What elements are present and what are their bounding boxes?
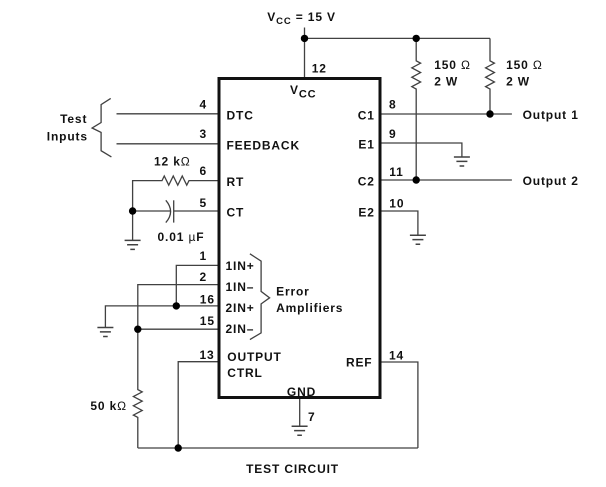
svg-text:1: 1 <box>200 249 208 263</box>
svg-text:13: 13 <box>200 348 215 362</box>
svg-text:7: 7 <box>308 410 316 424</box>
svg-text:1IN+: 1IN+ <box>226 259 255 273</box>
svg-text:150 Ω: 150 Ω <box>506 58 543 72</box>
svg-text:2 W: 2 W <box>434 74 458 88</box>
svg-text:6: 6 <box>200 164 208 178</box>
svg-text:3: 3 <box>200 127 208 141</box>
svg-text:OUTPUT: OUTPUT <box>227 350 281 364</box>
svg-text:10: 10 <box>389 196 404 210</box>
svg-text:16: 16 <box>200 293 215 307</box>
svg-text:50 kΩ: 50 kΩ <box>90 399 127 413</box>
svg-text:14: 14 <box>389 348 404 362</box>
svg-text:8: 8 <box>389 98 397 112</box>
svg-text:0.01 µF: 0.01 µF <box>158 230 205 244</box>
svg-text:Error: Error <box>276 284 310 298</box>
svg-text:C2: C2 <box>358 175 375 189</box>
svg-text:15: 15 <box>200 314 215 328</box>
svg-text:Output 1: Output 1 <box>523 108 579 122</box>
svg-text:DTC: DTC <box>227 108 254 122</box>
svg-text:C1: C1 <box>358 108 375 122</box>
svg-text:VCC = 15 V: VCC = 15 V <box>267 10 336 27</box>
svg-text:2IN–: 2IN– <box>226 322 255 336</box>
svg-text:Test: Test <box>60 112 87 126</box>
svg-text:VCC: VCC <box>290 83 316 101</box>
svg-text:2 W: 2 W <box>506 75 530 89</box>
svg-text:11: 11 <box>389 165 403 179</box>
svg-text:Amplifiers: Amplifiers <box>276 301 343 315</box>
svg-text:9: 9 <box>389 127 397 141</box>
svg-text:5: 5 <box>200 196 208 210</box>
svg-text:E1: E1 <box>358 137 374 151</box>
svg-text:Inputs: Inputs <box>47 129 88 143</box>
svg-text:CTRL: CTRL <box>227 366 262 380</box>
svg-text:2: 2 <box>200 270 208 284</box>
svg-text:E2: E2 <box>358 206 374 220</box>
svg-text:GND: GND <box>287 385 316 399</box>
svg-text:1IN–: 1IN– <box>226 280 255 294</box>
svg-text:TEST CIRCUIT: TEST CIRCUIT <box>246 462 339 476</box>
svg-text:FEEDBACK: FEEDBACK <box>227 138 300 152</box>
svg-text:REF: REF <box>346 355 373 369</box>
svg-text:CT: CT <box>227 206 245 220</box>
svg-text:RT: RT <box>227 175 245 189</box>
svg-text:12 kΩ: 12 kΩ <box>154 155 191 169</box>
svg-text:12: 12 <box>312 62 327 76</box>
svg-text:2IN+: 2IN+ <box>226 301 255 315</box>
svg-text:150 Ω: 150 Ω <box>434 58 471 72</box>
svg-text:4: 4 <box>200 98 208 112</box>
svg-text:Output 2: Output 2 <box>523 174 579 188</box>
